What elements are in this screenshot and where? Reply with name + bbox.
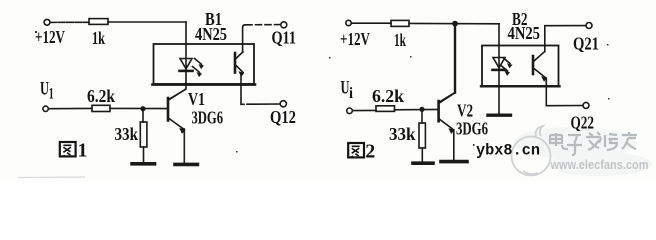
svg-text:+12V: +12V (340, 29, 370, 49)
svg-text:ybx8.cn: ybx8.cn (476, 142, 540, 160)
svg-text:i: i (349, 85, 353, 102)
svg-text:V1: V1 (188, 89, 205, 109)
svg-text:33k: 33k (389, 124, 416, 144)
svg-text:4N25: 4N25 (508, 23, 541, 43)
svg-text:+12V: +12V (35, 27, 65, 47)
svg-text:3DG6: 3DG6 (456, 119, 488, 139)
svg-text:6.2k: 6.2k (372, 86, 404, 106)
svg-text:V2: V2 (457, 101, 473, 121)
svg-text:1: 1 (49, 86, 54, 103)
svg-text:1: 1 (78, 140, 88, 162)
svg-text:U: U (40, 79, 49, 100)
svg-text:www.elecfans.com: www.elecfans.com (550, 157, 649, 172)
svg-text:2: 2 (365, 141, 375, 163)
svg-text:Q22: Q22 (571, 113, 595, 133)
svg-text:4N25: 4N25 (195, 24, 227, 44)
svg-text:Q21: Q21 (573, 34, 599, 54)
svg-text:33k: 33k (115, 124, 139, 144)
svg-text:1k: 1k (394, 30, 406, 50)
svg-text:1k: 1k (92, 28, 105, 48)
svg-text:3DG6: 3DG6 (192, 108, 224, 128)
svg-text:Q12: Q12 (270, 107, 296, 127)
svg-text:Q11: Q11 (272, 28, 297, 48)
svg-text:6.2k: 6.2k (87, 86, 115, 106)
